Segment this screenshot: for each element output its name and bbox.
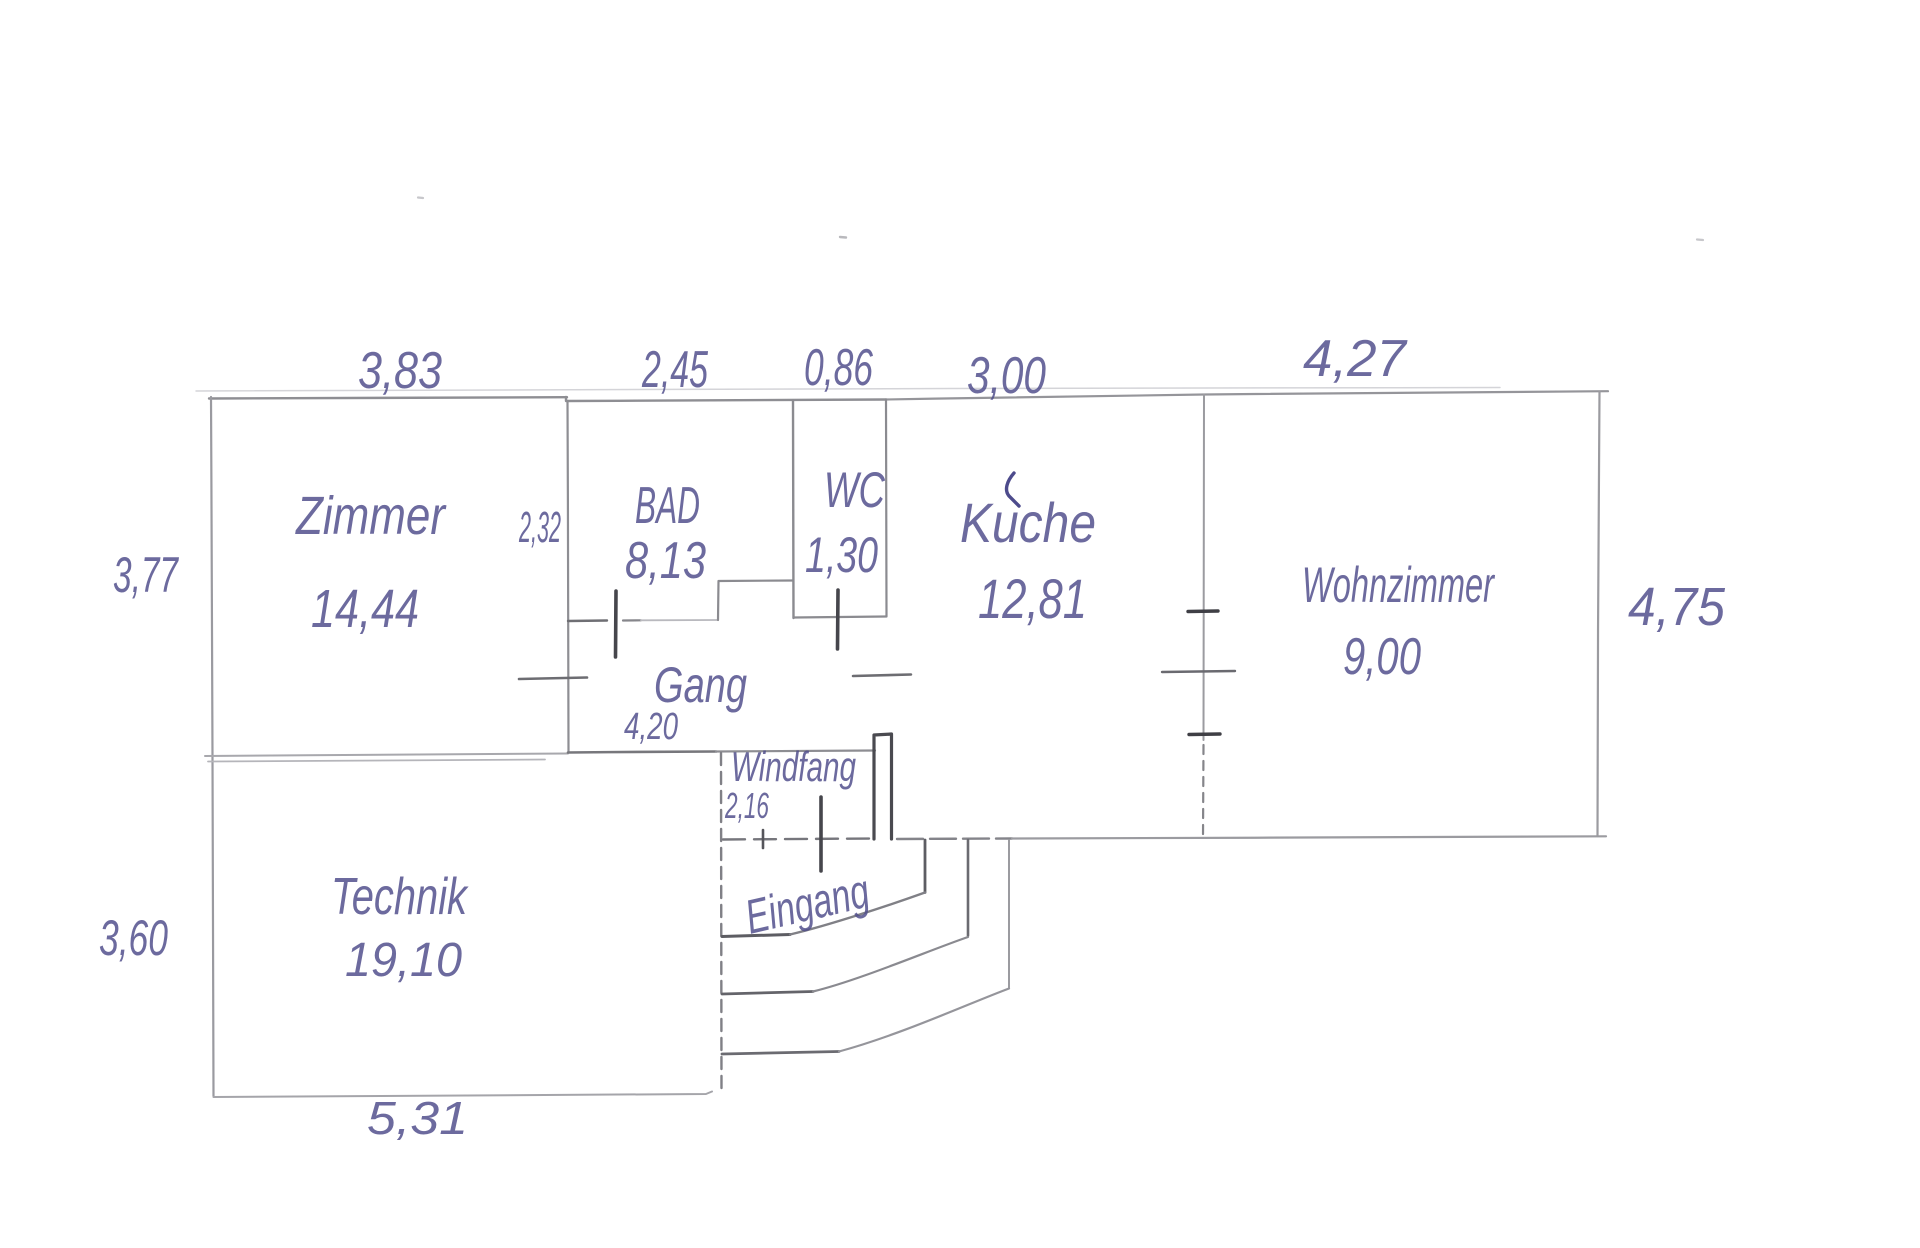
svg-text:BAD: BAD xyxy=(635,477,700,535)
svg-text:Kuche: Kuche xyxy=(960,491,1096,554)
svg-text:3,00: 3,00 xyxy=(967,347,1046,405)
svg-text:12,81: 12,81 xyxy=(978,567,1087,630)
svg-text:2,45: 2,45 xyxy=(641,341,708,399)
svg-text:Windfang: Windfang xyxy=(731,743,856,790)
svg-text:1,30: 1,30 xyxy=(805,527,878,583)
svg-text:19,10: 19,10 xyxy=(345,934,462,987)
svg-text:3,83: 3,83 xyxy=(358,342,442,400)
svg-text:Zimmer: Zimmer xyxy=(294,486,446,546)
svg-text:5,31: 5,31 xyxy=(367,1092,468,1144)
svg-text:WC: WC xyxy=(824,462,886,518)
svg-text:Technik: Technik xyxy=(331,868,469,926)
svg-text:8,13: 8,13 xyxy=(625,532,706,590)
svg-text:2,32: 2,32 xyxy=(519,503,561,552)
svg-text:3,77: 3,77 xyxy=(113,547,179,603)
svg-text:2,16: 2,16 xyxy=(724,785,769,826)
svg-text:0,86: 0,86 xyxy=(804,339,873,397)
svg-text:3,60: 3,60 xyxy=(99,910,168,966)
svg-text:Gang: Gang xyxy=(654,657,747,713)
svg-text:4,20: 4,20 xyxy=(624,706,678,748)
svg-text:4,75: 4,75 xyxy=(1628,577,1726,637)
svg-text:9,00: 9,00 xyxy=(1343,628,1421,686)
svg-text:4,27: 4,27 xyxy=(1303,330,1408,388)
svg-text:Wohnzimmer: Wohnzimmer xyxy=(1302,557,1496,613)
svg-text:14,44: 14,44 xyxy=(311,579,419,639)
